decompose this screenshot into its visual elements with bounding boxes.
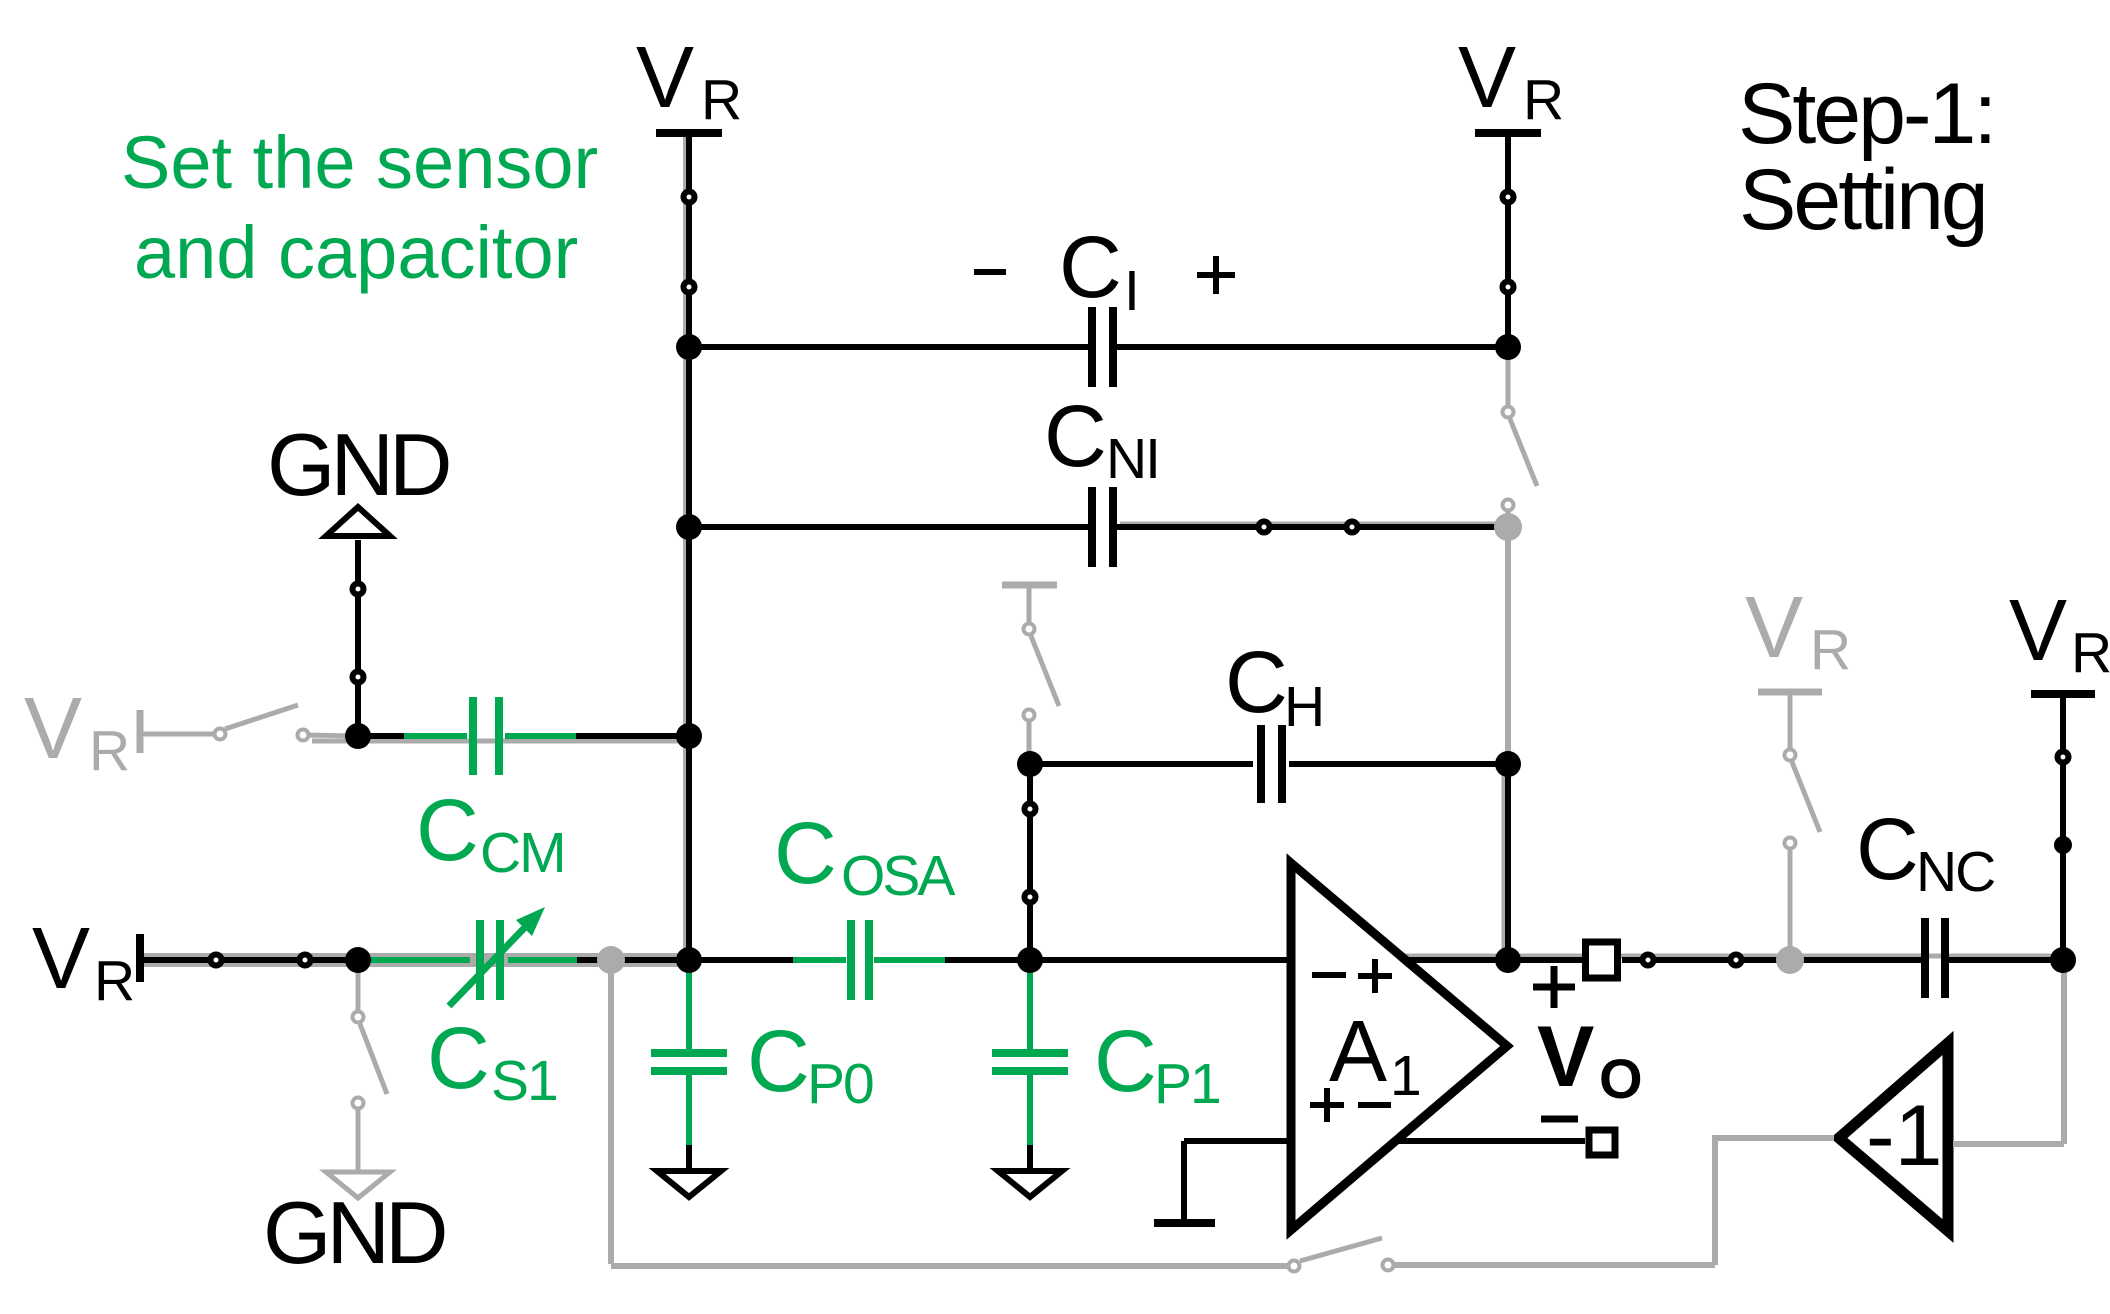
node gray feedback tap on main row xyxy=(597,946,625,974)
wire op-amp lower input row xyxy=(1184,1138,1291,1144)
switch contacts (closed) GND top stem xyxy=(353,584,364,595)
svg-text:I: I xyxy=(1124,259,1140,323)
wire gray underlay V_R top-left drop xyxy=(683,136,691,957)
terminal bar V_R left main input xyxy=(136,934,144,982)
svg-text:Step-1:: Step-1: xyxy=(1738,66,1994,162)
switch contacts (closed) C_H left branch xyxy=(1025,804,1036,815)
svg-text:GND: GND xyxy=(263,1183,445,1282)
op-amp input signs +- bottom xyxy=(1310,1102,1344,1108)
wire gray riser to -1 input xyxy=(1712,1138,1718,1265)
wire main row C_OSA to op-amp input xyxy=(945,957,1291,963)
svg-text:R: R xyxy=(94,949,135,1013)
svg-text:NC: NC xyxy=(1916,840,1994,904)
svg-text:V: V xyxy=(32,910,90,1007)
label minus at C_I xyxy=(974,269,1006,275)
capacitor C_CM green leads xyxy=(404,733,467,739)
svg-text:-1: -1 xyxy=(1866,1088,1942,1184)
wire V_R top-left vertical drop x=689 xyxy=(686,133,692,960)
wire C_H row right segment xyxy=(1289,761,1508,767)
terminal bar V_R right xyxy=(2031,690,2095,698)
switch lever xyxy=(1510,419,1537,486)
terminal bar V_R top-left xyxy=(656,129,722,137)
svg-text:C: C xyxy=(1856,801,1919,898)
svg-text:and capacitor: and capacitor xyxy=(134,211,578,294)
wire gray underlay C_CM row xyxy=(312,739,686,744)
svg-text:P0: P0 xyxy=(807,1052,873,1116)
label plus at output square xyxy=(1533,984,1575,991)
wire gray from right contact to GND node xyxy=(308,735,352,736)
switch contact (open circle) V_R right drop xyxy=(2058,752,2069,763)
node sensor input xyxy=(345,947,371,973)
capacitor C_OSA plates (green) xyxy=(847,920,855,1000)
wire V_R top-right vertical drop x=1508 xyxy=(1505,133,1511,347)
svg-text:CM: CM xyxy=(480,821,565,885)
switch open (gray, V_R left to GND node) lever xyxy=(225,705,298,729)
svg-text:C: C xyxy=(416,782,479,879)
wire gray bottom rail xyxy=(611,1263,1288,1269)
switch lever xyxy=(1031,636,1059,706)
svg-text:V: V xyxy=(24,680,82,777)
wire gray from contact to C_NI node xyxy=(1506,511,1511,527)
wire C_H right node down to output node xyxy=(1505,764,1511,960)
svg-text:Set the sensor: Set the sensor xyxy=(121,121,598,204)
wire GND top stem down to C_CM node xyxy=(355,540,361,736)
svg-text:GND: GND xyxy=(267,415,449,514)
node C_CM left (GND branch) xyxy=(345,723,371,749)
svg-text:NI: NI xyxy=(1106,427,1159,491)
wire gray feedback: left vertical from main-line gray node xyxy=(608,960,614,1264)
ground GND top arrow symbol xyxy=(326,507,390,536)
ground arrow gray xyxy=(326,1172,390,1198)
node gray on output row xyxy=(1776,946,1804,974)
wire gray bottom rail right of switch xyxy=(1394,1262,1715,1268)
capacitor C_P1 lower green stem xyxy=(1027,1075,1033,1147)
svg-text:Setting: Setting xyxy=(1739,152,1986,248)
wire gray underlay C_H right column xyxy=(1502,766,1509,955)
wire main row node 689 to C_OSA xyxy=(689,957,795,963)
svg-text:R: R xyxy=(1523,68,1564,132)
switch contacts gray V_R right xyxy=(1785,750,1796,761)
switch open (gray) on bottom rail lever xyxy=(1300,1238,1382,1261)
output terminal square (-) xyxy=(1589,1130,1615,1155)
wire gray underlay main input row xyxy=(142,953,686,967)
switch contacts (closed) output row xyxy=(1643,955,1654,966)
wire gray vertical C_NI node to C_H right node xyxy=(1505,527,1511,760)
switch contacts gray below sensor node xyxy=(353,1012,364,1023)
switch contacts (closed) V_R top-left drop xyxy=(684,192,695,203)
switch contacts (closed) C_NI row xyxy=(1259,522,1270,533)
node C_H left xyxy=(1017,751,1043,777)
ground arrow under C_P1 xyxy=(998,1171,1062,1197)
wire main row between C_S1 and node x=689 xyxy=(577,957,689,963)
ground arrow under C_P0 xyxy=(657,1171,721,1197)
ground bar under op-amp xyxy=(1154,1219,1215,1227)
capacitor C_I plates xyxy=(1088,307,1096,387)
svg-text:V: V xyxy=(2009,582,2067,679)
switch contacts gray above C_H left xyxy=(1024,624,1035,635)
svg-text:A: A xyxy=(1329,1003,1387,1100)
wire C_CM row black segment right xyxy=(574,733,689,739)
wire C_NI row right segment with closed switch xyxy=(1117,524,1508,530)
capacitor C_OSA green leads xyxy=(793,957,846,963)
node op-amp output xyxy=(1495,947,1521,973)
capacitor C_NC plates xyxy=(1921,918,1929,998)
svg-text:C: C xyxy=(774,805,837,902)
svg-text:O: O xyxy=(1599,1047,1643,1110)
wire C_P1 black stub to ground xyxy=(1027,1145,1033,1171)
inverter -1 triangle xyxy=(1839,1043,1948,1231)
wire gray stem to gray ground xyxy=(356,1109,361,1172)
svg-text:C: C xyxy=(1044,388,1107,485)
node C_I right xyxy=(1495,334,1521,360)
wire op-amp output to square terminal xyxy=(1405,957,1582,963)
wire gray stem xyxy=(1788,692,1793,749)
svg-text:R: R xyxy=(701,68,742,132)
wire C_I row right segment xyxy=(1117,344,1508,350)
svg-text:V: V xyxy=(1745,579,1803,676)
node C_NI left xyxy=(676,514,702,540)
capacitor C_NI plates xyxy=(1088,487,1096,567)
svg-text:C: C xyxy=(1059,219,1122,316)
wire op-amp lower output row xyxy=(1395,1138,1585,1144)
wire gray stem to output row node xyxy=(1788,849,1793,957)
wire C_H left branch vertical with closed switch xyxy=(1027,764,1033,960)
wire gray underlay C_NI row xyxy=(1120,522,1505,527)
switch contacts gray bottom rail xyxy=(1289,1261,1300,1272)
capacitor C_P1 plates (green) xyxy=(992,1049,1068,1057)
terminal bar V_R gray right xyxy=(1758,689,1822,696)
switch open (gray) below main sensor node: stem xyxy=(356,963,361,1011)
svg-text:R: R xyxy=(2071,621,2110,685)
switch contacts (closed) main input row xyxy=(211,955,222,966)
wire C_I row left segment xyxy=(689,344,1088,350)
capacitor C_CM plates (green) xyxy=(469,697,477,775)
wire gray to -1 apex xyxy=(1712,1135,1834,1141)
node C_P0 / main xyxy=(676,947,702,973)
node C_H right xyxy=(1495,751,1521,777)
node C_CM right xyxy=(676,723,702,749)
terminal bar V_R top-right xyxy=(1475,129,1541,137)
wire gray V_R left lead xyxy=(143,732,215,737)
svg-text:P1: P1 xyxy=(1154,1052,1220,1116)
output terminal square (+) xyxy=(1586,942,1618,978)
wire gray stem to C_H left node xyxy=(1027,721,1032,760)
terminal bar V_R gray left xyxy=(137,710,144,753)
svg-text:R: R xyxy=(89,719,130,783)
wire main row black under C_S1 label region xyxy=(358,957,404,963)
wire C_H row left segment xyxy=(1030,761,1253,767)
wire C_NI row left segment xyxy=(689,524,1088,530)
wire C_CM row black segment left xyxy=(358,733,406,739)
terminal bar gray above C_H left xyxy=(1002,582,1057,589)
wire gray riser to C_NC right node xyxy=(2061,960,2067,1144)
label minus at lower output square xyxy=(1541,1116,1578,1123)
sensor C_S1 green leads xyxy=(362,957,470,963)
capacitor C_P1 upper green stem xyxy=(1027,960,1033,1050)
svg-text:H: H xyxy=(1284,675,1325,739)
op-amp input signs -+ top xyxy=(1312,972,1346,978)
wire gray stem xyxy=(1027,585,1032,623)
wire ground stem of lower input xyxy=(1181,1141,1187,1220)
sensor C_S1 plates (green variable capacitor) xyxy=(476,920,484,1000)
wire C_NC to right V_R node xyxy=(1949,957,2063,963)
svg-text:1: 1 xyxy=(1390,1044,1422,1108)
wire main row from V_R terminal to sensor node xyxy=(140,957,358,963)
switch contacts (closed) V_R top-right drop xyxy=(1503,192,1514,203)
svg-text:R: R xyxy=(1810,618,1851,682)
svg-text:OSA: OSA xyxy=(841,844,955,908)
node C_I left xyxy=(676,334,702,360)
switch lever xyxy=(360,1024,387,1094)
op-amp A1 triangle xyxy=(1291,863,1507,1230)
label plus at C_I xyxy=(1197,272,1235,278)
svg-text:C: C xyxy=(427,1010,490,1107)
capacitor C_P0 plates (green) xyxy=(651,1049,727,1057)
svg-text:C: C xyxy=(1094,1013,1157,1110)
svg-text:C: C xyxy=(1225,634,1288,731)
capacitor C_H plates xyxy=(1257,725,1265,803)
capacitor C_P0 lower green stem xyxy=(686,1075,692,1147)
switch lever xyxy=(1792,762,1820,832)
switch contacts gray V_R left xyxy=(215,729,226,740)
svg-text:V: V xyxy=(1458,29,1516,126)
wire gray -1 output to right xyxy=(1953,1141,2064,1147)
node C_P1 / main xyxy=(1017,947,1043,973)
svg-text:V: V xyxy=(636,29,694,126)
sensor C_S1 variable arrow xyxy=(449,919,533,1006)
wire output row to C_NC xyxy=(1622,957,1921,963)
node C_NC right / V_R xyxy=(2050,947,2076,973)
svg-text:C: C xyxy=(747,1013,810,1110)
node gray C_NI right xyxy=(1494,513,1522,541)
switch contacts gray below C_I right xyxy=(1503,407,1514,418)
svg-text:S1: S1 xyxy=(491,1049,557,1113)
capacitor C_P0 upper green stem xyxy=(686,960,692,1050)
wire gray underlay output row xyxy=(1405,954,2060,959)
switch open (gray) below C_I right node: stem xyxy=(1506,350,1511,406)
switch contact filled on V_R right drop xyxy=(2054,836,2072,854)
wire V_R right vertical drop xyxy=(2060,694,2066,960)
svg-text:V: V xyxy=(1537,1009,1594,1105)
wire C_P0 black stub to ground xyxy=(686,1145,692,1171)
